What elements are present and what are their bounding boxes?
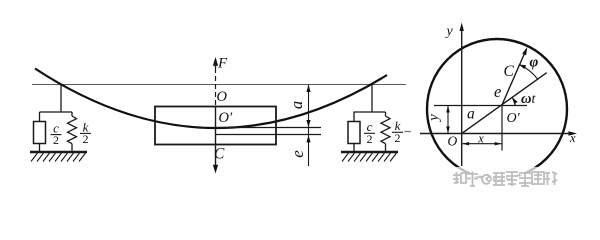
left spring rod top — [71, 112, 73, 116]
centerline bottom arrow — [213, 165, 218, 174]
left damper rod bottom — [39, 144, 41, 152]
svg-text:O: O — [217, 89, 228, 105]
label e (right fig) — [494, 82, 501, 101]
svg-text:2: 2 — [395, 131, 401, 145]
centerline dashed segment — [215, 68, 217, 107]
dimension line a/e — [308, 85, 310, 167]
svg-text:e: e — [288, 150, 307, 158]
x axis — [420, 133, 571, 135]
vertical dropped from O' — [501, 106, 503, 151]
svg-text:a: a — [467, 106, 475, 123]
left ground — [30, 151, 87, 154]
right damper rod top — [353, 112, 355, 122]
svg-text:F: F — [217, 56, 228, 72]
label k/2 left — [83, 119, 89, 146]
label C (right fig) — [504, 63, 515, 80]
label C — [214, 146, 225, 163]
whirl circle — [427, 39, 567, 179]
label y (rotated dim) — [426, 114, 442, 123]
label phi — [530, 55, 539, 71]
centerline solid segment — [215, 107, 217, 168]
label c/2 right — [367, 119, 373, 146]
label F — [217, 56, 228, 72]
label e (rotated) — [288, 150, 307, 158]
left damper rod top — [39, 112, 41, 122]
horizontal line through O' — [434, 105, 527, 107]
right ground hatching — [342, 153, 397, 162]
watermark — [453, 172, 558, 188]
label x axis — [569, 131, 576, 145]
svg-text:C: C — [214, 146, 225, 163]
svg-text:φ: φ — [530, 55, 539, 71]
label a (right fig) — [467, 106, 475, 123]
svg-text:O: O — [448, 134, 458, 149]
right support wire — [371, 85, 373, 112]
phi angle arc — [519, 65, 538, 80]
right damper rod bottom — [353, 144, 355, 152]
rotating line O'-C with arrow — [502, 51, 526, 106]
svg-text:y: y — [445, 24, 454, 39]
svg-text:2: 2 — [367, 132, 373, 146]
label c/2 left — [53, 121, 59, 148]
right spring rod bottom — [385, 144, 387, 152]
label x (dim) — [477, 132, 484, 146]
left support wire — [60, 85, 62, 112]
C-level line — [216, 134, 322, 136]
diagonal O-O' extended — [462, 73, 547, 134]
left spring rod bottom — [71, 144, 73, 152]
rotor rectangle — [155, 107, 276, 145]
left support bar — [40, 111, 73, 113]
y dimension line — [447, 106, 449, 133]
svg-text:C: C — [504, 63, 515, 80]
label O origin — [448, 134, 458, 149]
label a (rotated) — [287, 101, 306, 109]
svg-text:x: x — [569, 131, 576, 145]
svg-text:y: y — [426, 114, 442, 123]
label omega-t — [521, 91, 537, 107]
left damper c/2 body — [34, 122, 46, 144]
right damper c/2 body — [348, 122, 360, 144]
beam deflection curve — [35, 69, 387, 129]
svg-text:t: t — [532, 92, 537, 107]
svg-text:O′: O′ — [507, 111, 521, 126]
label y axis — [445, 24, 454, 39]
label k/2 right — [395, 118, 401, 145]
y axis — [461, 26, 463, 166]
watermark backing — [449, 167, 553, 190]
right spring k/2 — [381, 116, 390, 144]
centerline top arrow F — [213, 57, 218, 66]
right spring rod top — [385, 112, 387, 116]
label O — [217, 89, 228, 105]
label O' — [219, 110, 233, 126]
right support bar — [354, 111, 386, 113]
label O' (right fig) — [507, 111, 521, 126]
O'-level line — [216, 127, 322, 129]
reference line O-level (dashed) — [32, 84, 406, 86]
left ground hatching — [31, 153, 86, 162]
omega-t angle arc — [513, 98, 516, 106]
left spring k/2 — [68, 116, 77, 144]
right ground — [341, 151, 398, 154]
svg-text:O′: O′ — [219, 110, 233, 126]
svg-text:e: e — [494, 82, 501, 101]
svg-text:ω: ω — [521, 91, 532, 107]
x dimension line — [462, 143, 501, 145]
svg-text:x: x — [477, 132, 484, 146]
svg-text:a: a — [287, 101, 306, 109]
